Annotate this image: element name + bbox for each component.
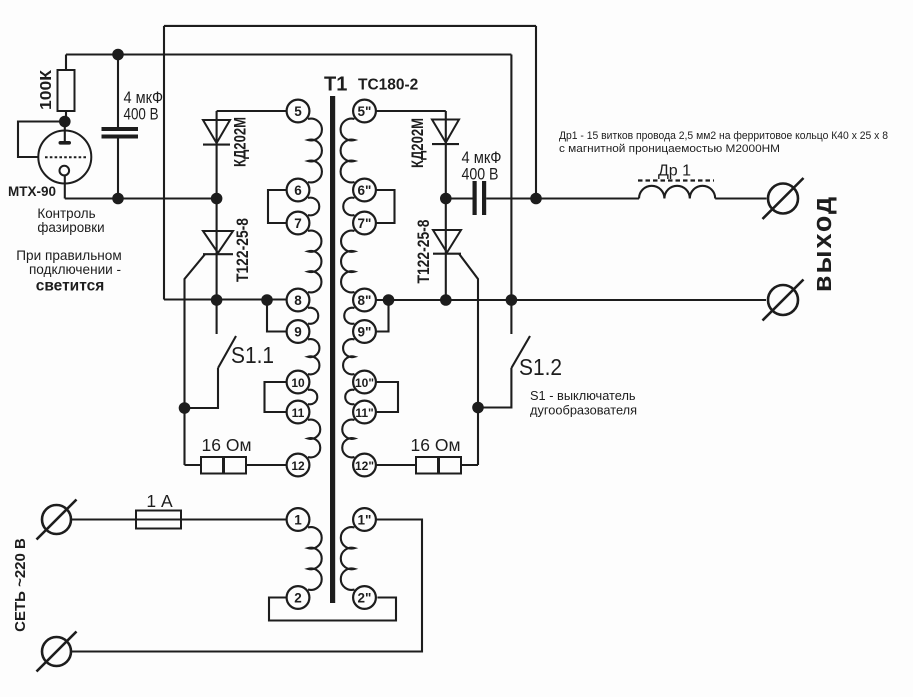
svg-text:7": 7" — [358, 216, 372, 231]
switch S1.2 fixed contact — [510, 305, 512, 334]
winding left 11-12 — [308, 420, 320, 458]
svg-text:Контроль: Контроль — [37, 206, 95, 221]
terminal circle 7 right — [353, 212, 376, 235]
svg-text:11: 11 — [292, 406, 305, 420]
svg-text:выход: выход — [807, 195, 837, 292]
thyristor VS1 cathode bar — [203, 253, 233, 255]
capacitor C1 top plate — [102, 127, 139, 131]
svg-text:ТС180-2: ТС180-2 — [358, 77, 418, 94]
terminal circle 2 left — [287, 586, 310, 609]
svg-text:Др1 - 15 витков провода 2,5: Др1 - 15 витков провода 2,5 мм2 на ферри… — [559, 130, 888, 142]
winding right 9-10 — [343, 339, 354, 374]
link terminals 10-11 left — [265, 382, 287, 412]
svg-text:КД202М: КД202М — [231, 117, 250, 167]
link terminals 6-7 left — [268, 190, 287, 223]
svg-text:6": 6" — [358, 183, 372, 198]
resistor R2 16 Ом body — [201, 457, 246, 474]
transformer core — [330, 96, 335, 603]
terminal circle 5 right — [353, 100, 376, 123]
lamp cathode dashed electrode — [45, 156, 87, 158]
capacitor C1 bottom plate — [102, 135, 139, 139]
svg-text:Т122-25-8: Т122-25-8 — [233, 218, 252, 282]
wire C1 top lead — [117, 55, 119, 128]
svg-text:7: 7 — [294, 216, 302, 231]
thyristor VS2 Т122-25-8 triangle — [433, 230, 461, 253]
svg-text:подключении -: подключении - — [29, 262, 121, 277]
node junction link9 right — [383, 294, 395, 306]
node junction left rectifier — [211, 193, 223, 205]
terminal circle 9 right — [353, 320, 376, 343]
svg-text:Т122-25-8: Т122-25-8 — [414, 220, 433, 284]
terminal circle 10 left — [287, 371, 310, 394]
terminal output minus circle — [768, 285, 798, 315]
svg-text:16 Ом: 16 Ом — [202, 435, 252, 455]
wire lower bus left — [164, 298, 287, 300]
wire mains bottom to primary — [71, 520, 422, 652]
winding left 5-6 — [308, 119, 322, 183]
svg-text:400 В: 400 В — [462, 166, 499, 184]
wire top frame horizontal — [164, 25, 536, 27]
node junction C1 bottom — [112, 193, 124, 205]
terminal circle 8 right — [353, 289, 376, 312]
terminal output minus slash — [763, 280, 804, 321]
node junction link9 left — [261, 294, 273, 306]
node junction resistor-lamp — [59, 116, 71, 128]
wire inductor to output terminal — [715, 197, 766, 199]
terminal mains top slash — [37, 500, 77, 540]
svg-text:Т1: Т1 — [324, 74, 347, 96]
resistor R3 16 Ом body — [416, 457, 461, 474]
link terminal 9 right — [376, 300, 389, 332]
wire left rectifier column — [216, 111, 218, 300]
wire left frame vertical — [163, 26, 165, 300]
fuse FU1 body — [136, 511, 181, 529]
terminal circle 11 left — [287, 401, 310, 424]
wire terminal 5double to diode column — [376, 110, 446, 112]
thyristor VS2 gate lead — [459, 254, 478, 465]
neon lamp HL1 MTX-90 envelope — [38, 131, 91, 184]
svg-text:5: 5 — [294, 104, 302, 119]
terminal output plus circle — [768, 184, 798, 214]
wire inner top horizontal — [66, 53, 511, 55]
resistor R2 center bar — [222, 458, 225, 473]
svg-text:светится: светится — [36, 278, 105, 295]
winding right 10-11 — [345, 390, 354, 405]
wire C2 to output node — [486, 197, 639, 199]
wire C1 bottom lead — [117, 139, 119, 199]
wire right frame vertical to output node — [535, 26, 537, 199]
svg-text:8: 8 — [294, 293, 302, 308]
winding left 6-7 — [308, 198, 319, 216]
terminal circle 10 right — [353, 371, 376, 394]
terminal mains bottom circle — [42, 637, 71, 666]
wire control bus right stub — [446, 197, 473, 199]
diode VD1 КД202М triangle — [203, 120, 230, 143]
wire terminal 5 to diode column — [217, 110, 287, 112]
svg-text:S1.2: S1.2 — [519, 354, 562, 380]
terminal circle 6 right — [353, 179, 376, 202]
svg-text:дугообразователя: дугообразователя — [530, 403, 637, 418]
terminal mains bottom slash — [37, 632, 77, 672]
node junction C1 top — [112, 49, 124, 61]
winding right 1-2 — [341, 527, 355, 590]
svg-text:16 Ом: 16 Ом — [411, 435, 461, 455]
terminal output plus slash — [763, 178, 804, 219]
diode VD1 cathode bar — [203, 144, 230, 146]
svg-text:Др 1: Др 1 — [658, 163, 691, 180]
svg-text:с магнитной проницаемостью: с магнитной проницаемостью М2000НМ — [559, 143, 780, 155]
wire gate column to R3 — [461, 464, 478, 466]
winding left 1-2 — [308, 527, 322, 590]
wire R2 to terminal 12 — [246, 464, 286, 466]
inductor L1 core dashed — [638, 179, 714, 181]
switch S1.1 arm — [218, 336, 236, 368]
winding right 7-8 — [341, 231, 354, 293]
svg-text:1 А: 1 А — [146, 491, 173, 511]
svg-text:КД202М: КД202М — [408, 118, 427, 168]
svg-text:При правильном: При правильном — [16, 248, 121, 263]
svg-text:1": 1" — [358, 512, 372, 527]
svg-text:S1 - выключатель: S1 - выключатель — [530, 388, 636, 403]
diode VD2 КД202М triangle — [432, 120, 459, 143]
winding right 5-6 — [341, 119, 355, 183]
capacitor C2 left plate — [473, 181, 477, 215]
terminal mains top circle — [42, 505, 71, 534]
wire primary 2-2 link — [269, 598, 396, 621]
switch S1.2 arm — [511, 336, 530, 368]
thyristor VS1 gate lead — [185, 254, 206, 465]
switch S1.2 lower lead — [478, 368, 511, 408]
switch S1.1 fixed contact — [216, 305, 218, 334]
svg-text:5": 5" — [358, 104, 372, 119]
link terminals 10-11 right — [376, 382, 398, 412]
wire lower bus to output terminal — [376, 299, 766, 301]
winding right 8-9 — [344, 308, 354, 324]
capacitor C2 right plate — [482, 181, 486, 215]
svg-text:2: 2 — [294, 590, 302, 605]
wire lamp starter loop — [18, 122, 65, 158]
svg-text:100К: 100К — [38, 70, 55, 110]
svg-text:400 В: 400 В — [124, 106, 159, 124]
svg-text:СЕТЬ ~220 В: СЕТЬ ~220 В — [12, 538, 29, 632]
wire inner right vertical to lower bus — [510, 55, 512, 301]
svg-text:10: 10 — [291, 376, 305, 390]
link terminals 6-7 right — [376, 190, 395, 223]
node junction S1.2 gate — [472, 402, 484, 414]
svg-text:11": 11" — [355, 406, 373, 420]
node junction thyristor left bus — [211, 294, 223, 306]
thyristor VS2 cathode bar — [433, 253, 461, 255]
svg-text:9: 9 — [294, 324, 302, 339]
wire mains through fuse — [71, 518, 287, 520]
terminal circle 9 left — [287, 320, 310, 343]
terminal circle 12 left — [287, 454, 310, 477]
svg-text:4 мкФ: 4 мкФ — [124, 89, 164, 107]
terminal circle 12 right — [353, 454, 376, 477]
svg-text:10": 10" — [355, 376, 374, 390]
wire control bus left — [65, 197, 217, 199]
winding right 11-12 — [342, 420, 354, 458]
node junction right rectifier — [440, 193, 452, 205]
winding left 9-10 — [308, 339, 319, 374]
diode VD2 cathode bar — [432, 143, 459, 145]
wire resistor top lead — [65, 55, 67, 71]
terminal circle 11 right — [353, 401, 376, 424]
lamp anode bar — [59, 141, 72, 145]
wire gate column to R2 — [185, 464, 202, 466]
wire resistor bottom lead — [65, 111, 67, 122]
wire right rectifier column — [445, 111, 447, 300]
resistor R3 center bar — [437, 458, 440, 473]
terminal circle 2 right — [353, 586, 376, 609]
svg-text:1: 1 — [294, 512, 302, 527]
svg-text:4 мкФ: 4 мкФ — [462, 149, 502, 167]
node junction S1.1 gate — [179, 402, 191, 414]
resistor R1 100K body — [58, 70, 75, 111]
winding left 10-11 — [308, 390, 317, 405]
lamp bottom lead — [64, 176, 66, 199]
terminal circle 8 left — [287, 289, 310, 312]
svg-text:9": 9" — [358, 324, 372, 339]
terminal circle 5 left — [287, 100, 310, 123]
switch S1.1 lower lead — [185, 368, 219, 408]
lamp inner electrode circle — [60, 166, 70, 176]
svg-text:8": 8" — [358, 293, 372, 308]
terminal circle 1 left — [287, 508, 310, 531]
link terminal 9 left — [267, 300, 287, 332]
node junction switch right bus — [506, 294, 518, 306]
svg-text:S1.1: S1.1 — [231, 342, 274, 368]
svg-text:фазировки: фазировки — [37, 220, 104, 235]
svg-text:6: 6 — [294, 183, 302, 198]
svg-text:2": 2" — [358, 590, 372, 605]
node junction output top — [530, 193, 542, 205]
wire terminal 12double to R3 — [376, 464, 416, 466]
winding right 6-7 — [343, 198, 354, 216]
winding left 8-9 — [308, 308, 318, 324]
svg-text:МТХ-90: МТХ-90 — [8, 184, 56, 199]
winding left 7-8 — [308, 231, 321, 293]
svg-text:12: 12 — [291, 459, 305, 473]
lamp anode lead — [64, 122, 66, 143]
node junction gate right bus — [440, 294, 452, 306]
svg-text:12": 12" — [355, 459, 374, 473]
terminal circle 7 left — [287, 212, 310, 235]
terminal circle 1 right — [353, 508, 376, 531]
terminal circle 6 left — [287, 179, 310, 202]
thyristor VS1 Т122-25-8 triangle — [203, 231, 233, 253]
inductor L1 Др1 winding — [639, 186, 715, 199]
